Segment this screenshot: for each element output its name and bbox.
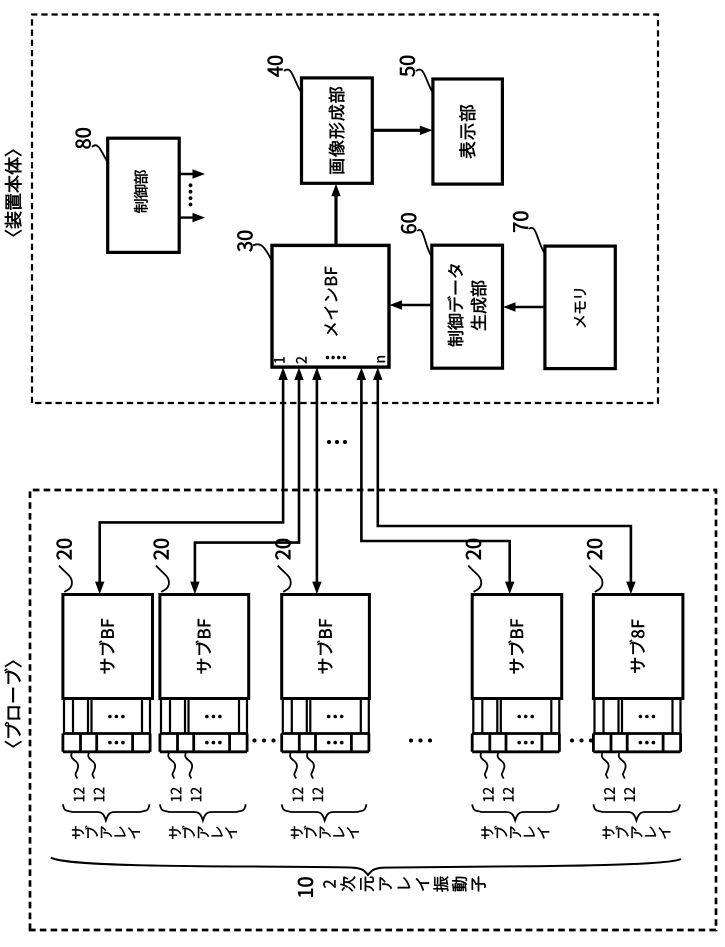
block U20-5 サブ8F (sub beamformer 5) bbox=[593, 595, 683, 699]
label 12 (group 5 second) bbox=[624, 788, 634, 802]
arrow from 制御部 (right) bbox=[179, 169, 205, 178]
arrow 画像形成部 → 表示部 bbox=[372, 126, 432, 135]
ref numeral 80 with leader bbox=[76, 128, 108, 162]
wire n: メインBF portn ↔ サブBF#5 bbox=[373, 368, 635, 595]
brace サブアレイ (group 5) bbox=[593, 804, 680, 820]
block U40 画像形成部 (image forming unit) bbox=[302, 78, 373, 183]
ellipsis between element rows 4-5 bbox=[570, 738, 593, 742]
ellipsis between element rows 3-4 bbox=[409, 738, 432, 742]
arrow 制御データ生成部 → メインBF bbox=[390, 300, 432, 309]
label 12 (group 2 second) bbox=[191, 788, 201, 802]
ellipsis between wire bundles bbox=[327, 440, 347, 444]
block U20-2 サブBF (sub beamformer 2) bbox=[160, 595, 249, 699]
block U30 メインBF (main beamformer) bbox=[272, 245, 389, 367]
label 12 (group 3 first) bbox=[293, 788, 303, 802]
ref numeral 10 bbox=[298, 877, 313, 896]
ellipsis in element row (group 5) bbox=[639, 741, 656, 745]
block U70 メモリ (memory) bbox=[545, 246, 615, 369]
leader element→12 (group 1 second) bbox=[88, 752, 95, 779]
brace サブアレイ (group 4) bbox=[472, 804, 559, 820]
label 12 (group 1 first) bbox=[74, 788, 84, 802]
block U20-1 サブBF (sub beamformer 1) bbox=[63, 595, 153, 699]
bus legs サブBF#4 → element row bbox=[473, 699, 559, 734]
leader element→12 (group 5 first) bbox=[602, 752, 609, 779]
ellipsis in bus legs (group 5) bbox=[639, 715, 656, 719]
leader element→12 (group 1 first) bbox=[71, 752, 78, 779]
bus legs サブBF#5 → element row bbox=[595, 699, 681, 734]
ellipsis in bus legs (group 2) bbox=[205, 715, 222, 719]
leader element→12 (group 2 first) bbox=[168, 752, 175, 779]
ellipsis in bus legs (group 1) bbox=[108, 715, 125, 719]
label 〈装置本体〉 bbox=[5, 150, 22, 237]
wire 1: メインBF port1 ↔ サブBF#1 bbox=[95, 368, 288, 595]
element row (transducer cells) group 4 bbox=[472, 734, 559, 752]
dashed frame 装置本体 (apparatus body) bbox=[32, 15, 658, 404]
label サブアレイ (group 2) bbox=[169, 826, 237, 839]
ref numeral 20 with leader (group 4) bbox=[466, 539, 481, 592]
leader element→12 (group 2 second) bbox=[185, 752, 192, 779]
leader element→12 (group 5 second) bbox=[619, 752, 626, 779]
block U80 制御部 (control unit) bbox=[108, 138, 180, 252]
bus legs サブBF#3 → element row bbox=[283, 699, 369, 734]
label 12 (group 4 second) bbox=[503, 788, 513, 802]
label 12 (group 4 first) bbox=[483, 788, 493, 802]
ellipsis between メインBF ports bbox=[326, 356, 346, 359]
block U60 制御データ生成部 (control data generator) bbox=[432, 245, 503, 368]
port label n bbox=[377, 356, 385, 362]
brace サブアレイ (group 3) bbox=[282, 804, 367, 820]
ellipsis in element row (group 4) bbox=[517, 741, 534, 745]
label 12 (group 3 second) bbox=[313, 788, 323, 802]
leader element→12 (group 4 first) bbox=[481, 752, 488, 779]
port label 1 bbox=[274, 357, 284, 363]
ref numeral 20 with leader (group 5) bbox=[587, 539, 602, 592]
ref numeral 30 with leader bbox=[237, 231, 271, 260]
block U20-3 サブBF (sub beamformer 3) bbox=[282, 595, 370, 699]
ref numeral 50 with leader bbox=[400, 56, 433, 92]
ellipsis in bus legs (group 3) bbox=[327, 715, 344, 719]
ref numeral 60 with leader bbox=[401, 213, 431, 256]
arrow メモリ → 制御データ生成部 bbox=[503, 302, 545, 311]
label サブアレイ (group 3) bbox=[291, 826, 359, 839]
ref numeral 20 with leader (group 2) bbox=[154, 539, 169, 592]
ellipsis between element rows 2-3 bbox=[252, 738, 275, 742]
leader element→12 (group 4 second) bbox=[498, 752, 505, 779]
label サブアレイ (group 4) bbox=[481, 826, 549, 839]
label サブアレイ (group 1) bbox=[72, 826, 140, 839]
big brace 2次元アレイ振動子 (2D array transducer) bbox=[51, 858, 681, 876]
arrow メインBF → 画像形成部 bbox=[331, 184, 340, 246]
element row (transducer cells) group 2 bbox=[160, 734, 247, 752]
ref numeral 40 with leader bbox=[268, 56, 301, 92]
ref numeral 20 with leader (group 1) bbox=[57, 539, 72, 592]
label サブアレイ (group 5) bbox=[603, 826, 671, 839]
label 12 (group 1 second) bbox=[94, 788, 104, 802]
element row (transducer cells) group 3 bbox=[282, 734, 369, 752]
element row (transducer cells) group 5 bbox=[593, 734, 680, 752]
label 12 (group 5 first) bbox=[604, 788, 614, 802]
wire 2: メインBF port2 ↔ サブBF#2 bbox=[190, 368, 304, 595]
ellipsis in element row (group 1) bbox=[108, 741, 125, 745]
ellipsis in element row (group 2) bbox=[205, 741, 222, 745]
leader element→12 (group 3 first) bbox=[290, 752, 297, 779]
ref numeral 20 with leader (group 3) bbox=[275, 539, 290, 592]
port label 2 bbox=[296, 357, 306, 364]
ellipsis in element row (group 3) bbox=[327, 741, 344, 745]
block U50 表示部 (display unit) bbox=[433, 79, 503, 184]
label 〈プローブ〉 bbox=[5, 661, 22, 748]
label 2次元アレイ振動子 (vertical) bbox=[323, 876, 485, 891]
leader element→12 (group 3 second) bbox=[307, 752, 314, 779]
brace サブアレイ (group 1) bbox=[63, 804, 150, 820]
bus legs サブBF#1 → element row bbox=[64, 699, 150, 734]
block U20-4 サブBF (sub beamformer 4) bbox=[472, 595, 562, 699]
wire 4: メインBF ↔ サブBF#4 bbox=[357, 368, 515, 595]
label 12 (group 2 first) bbox=[171, 788, 181, 802]
ellipsis between 制御部 arrows bbox=[189, 183, 193, 206]
element row (transducer cells) group 1 bbox=[63, 734, 150, 752]
ellipsis in bus legs (group 4) bbox=[517, 715, 534, 719]
dashed frame プローブ (probe) bbox=[30, 490, 716, 930]
brace サブアレイ (group 2) bbox=[160, 804, 246, 820]
arrow from 制御部 (left) bbox=[179, 213, 205, 222]
wire 3: メインBF port3 ↔ サブBF#3 bbox=[312, 368, 321, 595]
bus legs サブBF#2 → element row bbox=[161, 699, 247, 734]
ref numeral 70 with leader bbox=[513, 212, 544, 253]
